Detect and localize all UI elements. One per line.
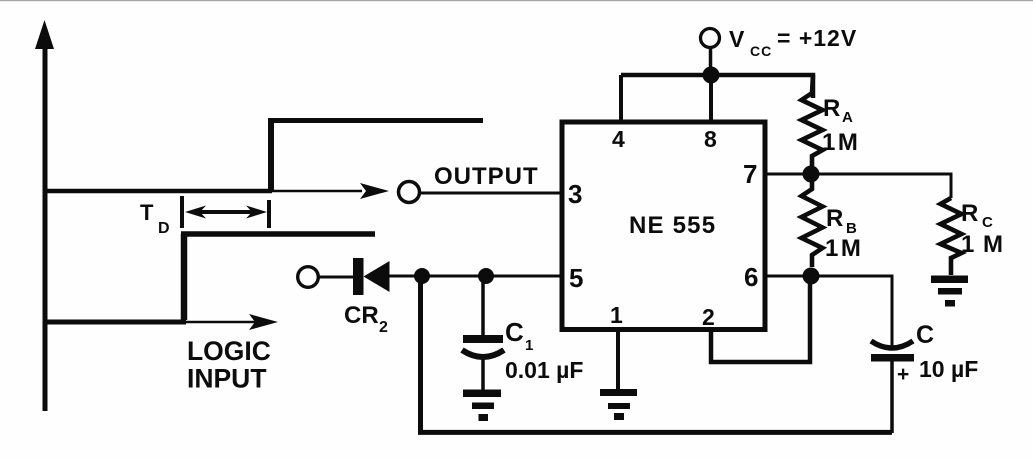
pin 1 wire bbox=[616, 331, 620, 389]
label CR2 bbox=[344, 302, 388, 336]
output waveform high level bbox=[268, 118, 483, 123]
output waveform rising edge bbox=[268, 119, 274, 192]
wire pin 6 to node bbox=[765, 275, 811, 278]
wire node B down to C1 bbox=[481, 276, 485, 337]
ground RC bbox=[931, 276, 968, 307]
svg-text:= +12V: = +12V bbox=[777, 25, 857, 51]
waveform time axis (vertical) bbox=[35, 20, 54, 411]
wire C1 to ground bbox=[481, 358, 485, 390]
bottom rail wire bbox=[421, 277, 893, 432]
pin 8 wire bbox=[709, 75, 713, 122]
svg-text:6: 6 bbox=[744, 262, 758, 292]
wire terminal to CR2 bbox=[317, 276, 355, 279]
svg-text:CR: CR bbox=[344, 302, 379, 329]
resistor RA bbox=[802, 75, 823, 166]
pin 2 wire bbox=[711, 281, 810, 362]
svg-text:D: D bbox=[158, 220, 170, 237]
label RC bbox=[961, 200, 993, 231]
label RA bbox=[823, 95, 853, 126]
svg-text:8: 8 bbox=[704, 126, 717, 152]
wire node A to node B bbox=[422, 275, 486, 278]
label C1 bbox=[505, 317, 533, 354]
junction node A bbox=[414, 268, 430, 284]
svg-text:1M: 1M bbox=[822, 129, 860, 156]
svg-text:NE 555: NE 555 bbox=[629, 212, 716, 239]
wire node to capacitor C bbox=[811, 276, 892, 347]
svg-text:1 M: 1 M bbox=[961, 231, 1004, 258]
svg-text:2: 2 bbox=[379, 319, 388, 336]
pin 4 wire bbox=[619, 75, 623, 122]
label LOGIC INPUT bbox=[187, 336, 271, 394]
svg-text:R: R bbox=[961, 200, 978, 227]
svg-text:3: 3 bbox=[568, 179, 582, 209]
resistor RC bbox=[941, 198, 962, 275]
output waveform baseline wire bbox=[43, 189, 362, 194]
logic input rising edge bbox=[181, 234, 188, 320]
svg-text:5: 5 bbox=[569, 263, 583, 293]
wire node B to pin 5 bbox=[486, 275, 560, 278]
resistor RB bbox=[802, 174, 823, 267]
junction node B bbox=[478, 268, 494, 284]
svg-text:OUTPUT: OUTPUT bbox=[434, 163, 539, 190]
svg-text:1: 1 bbox=[525, 337, 533, 354]
svg-text:A: A bbox=[842, 109, 853, 126]
Td left tick bbox=[180, 196, 184, 228]
wire node to RC bbox=[811, 174, 951, 198]
logic input terminal bbox=[298, 267, 319, 288]
wire pin 7 to node bbox=[765, 173, 811, 176]
label Vcc = +12V bbox=[729, 25, 857, 59]
svg-text:1: 1 bbox=[610, 302, 623, 328]
svg-text:C: C bbox=[505, 317, 524, 347]
svg-text:10 µF: 10 µF bbox=[919, 356, 978, 382]
svg-text:INPUT: INPUT bbox=[187, 364, 267, 394]
junction Vcc bbox=[703, 67, 720, 84]
Vcc rail wire bbox=[621, 75, 813, 98]
wire C to bottom rail bbox=[890, 359, 894, 433]
svg-text:R: R bbox=[826, 205, 843, 232]
wire CR2 to node A bbox=[389, 275, 422, 278]
svg-text:LOGIC: LOGIC bbox=[187, 336, 271, 366]
svg-text:0.01 µF: 0.01 µF bbox=[505, 357, 583, 383]
capacitor C bbox=[871, 341, 914, 362]
Vcc terminal stub bbox=[709, 47, 713, 75]
Td delay double arrow bbox=[185, 206, 267, 219]
svg-text:1M: 1M bbox=[825, 235, 863, 262]
svg-text:V: V bbox=[729, 26, 745, 52]
logic input low level bbox=[43, 320, 186, 325]
wire output terminal to pin 3 bbox=[421, 192, 560, 195]
ground pin 1 bbox=[600, 389, 637, 420]
svg-text:CC: CC bbox=[750, 43, 772, 59]
svg-text:2: 2 bbox=[702, 304, 715, 330]
logic input axis arrow bbox=[184, 314, 278, 330]
svg-text:+: + bbox=[897, 363, 909, 386]
diode CR2 bbox=[353, 258, 390, 295]
svg-text:T: T bbox=[140, 200, 154, 225]
output axis arrowhead bbox=[360, 183, 389, 199]
Td right tick bbox=[267, 200, 271, 228]
svg-text:C: C bbox=[916, 321, 934, 349]
logic input high level bbox=[181, 231, 375, 237]
svg-text:7: 7 bbox=[743, 159, 757, 189]
svg-text:4: 4 bbox=[612, 126, 625, 152]
ground C1 bbox=[463, 390, 501, 422]
junction node RA/RB/RC/pin7 bbox=[803, 166, 820, 183]
Vcc terminal bbox=[701, 29, 720, 48]
svg-text:C: C bbox=[982, 214, 993, 231]
capacitor C1 bbox=[462, 335, 504, 357]
svg-text:R: R bbox=[823, 95, 840, 122]
label RB bbox=[826, 205, 857, 237]
junction node pin6/RB/pin2/C bbox=[803, 268, 820, 285]
IC U1 NE 555 bbox=[562, 122, 765, 330]
label TD bbox=[140, 200, 170, 237]
output terminal bbox=[399, 182, 420, 203]
